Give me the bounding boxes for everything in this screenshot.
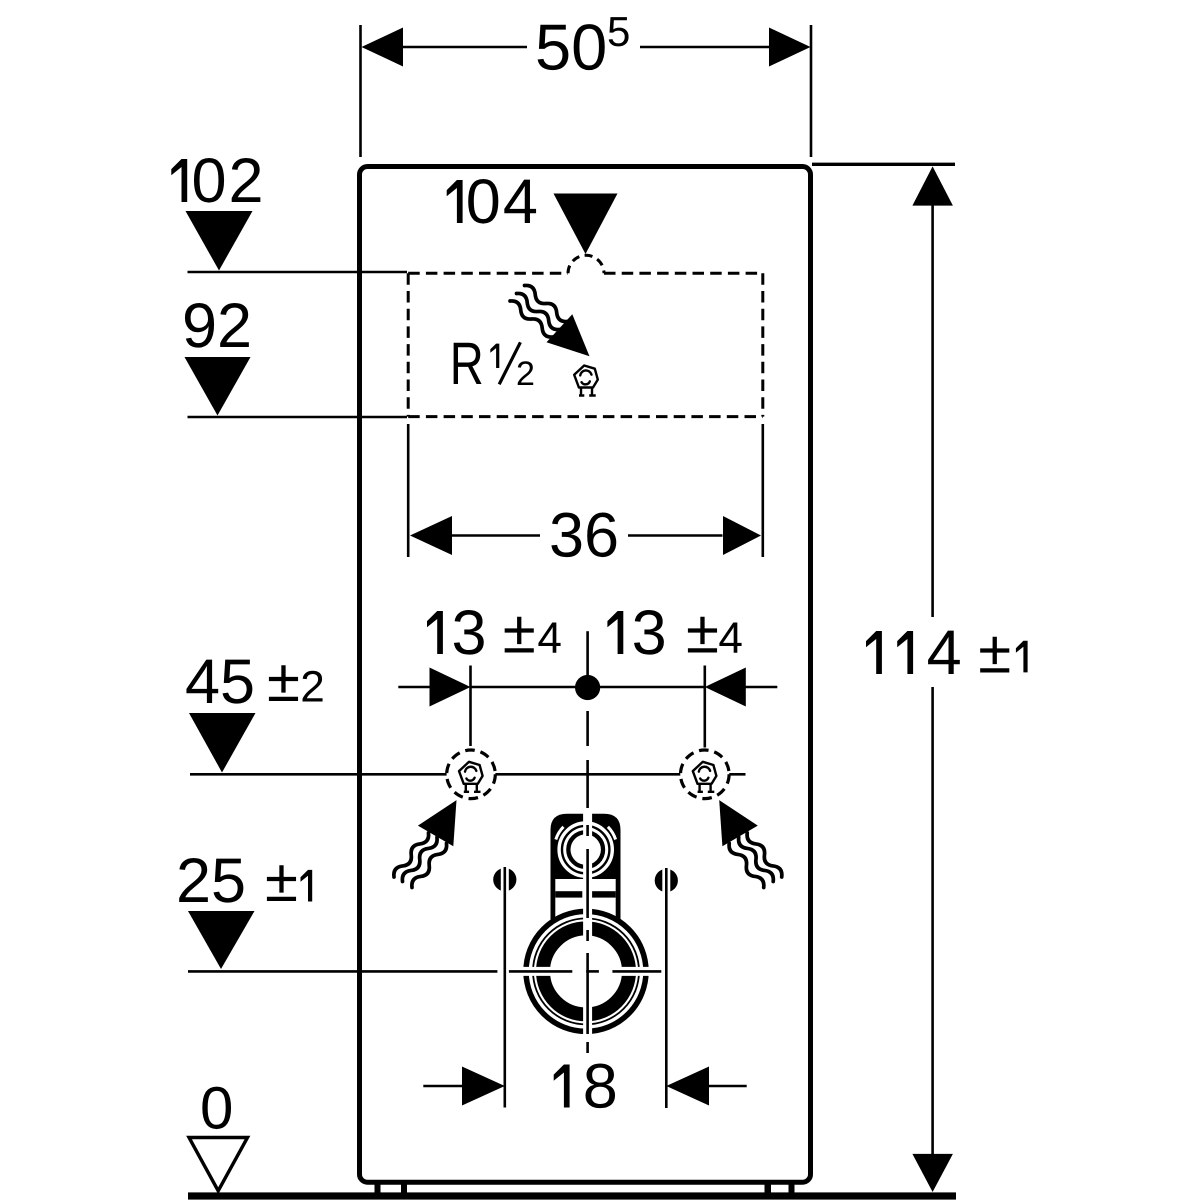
centerline tick above dot <box>586 631 589 676</box>
datum triangle 45 <box>189 713 256 773</box>
dim 36 arrow left <box>410 516 452 555</box>
dim 36 arrow right <box>723 516 761 555</box>
datum triangle 0 (open) <box>189 1138 248 1191</box>
label 102 <box>171 159 187 202</box>
dim 18 arrow right <box>666 1067 709 1106</box>
datum triangle 92 <box>185 357 251 416</box>
ground line <box>188 1192 956 1199</box>
svg-text:3: 3 <box>632 598 667 668</box>
tap icon anchor left <box>459 762 483 792</box>
svg-text:8: 8 <box>583 1052 618 1122</box>
svg-text:25: 25 <box>176 846 246 916</box>
svg-text:36: 36 <box>549 500 619 570</box>
supply fitting corner highlights <box>556 827 564 840</box>
tap icon top <box>574 366 598 396</box>
datum triangle 25 <box>188 911 255 969</box>
module right foot <box>765 1184 772 1194</box>
dim 18 arrow left <box>462 1067 505 1106</box>
dim 114 arrow top <box>912 166 953 205</box>
label 13 left <box>427 611 443 654</box>
drain outer circle <box>526 911 646 1031</box>
svg-text:R: R <box>450 330 484 397</box>
dim 114 dimension line <box>931 206 934 618</box>
dim 505 extension line left <box>359 25 362 157</box>
svg-text:02: 02 <box>192 146 266 216</box>
dim 18 extension line right <box>665 868 668 1108</box>
reference line 45 <box>190 773 447 776</box>
dim 13 arrow left <box>430 668 471 707</box>
center dot node <box>575 675 600 700</box>
supply fitting white rings <box>559 823 612 876</box>
dim 36 extension lines <box>407 424 410 557</box>
label 104 <box>447 180 463 223</box>
datum triangle 104 <box>554 194 618 255</box>
dim 13 tick left <box>469 666 472 747</box>
anchor circle right (dashed) <box>681 750 730 799</box>
svg-text:±: ± <box>267 647 300 714</box>
water jet arrow right anchor <box>719 800 784 890</box>
water jet arrow left anchor <box>391 800 456 890</box>
dim 13 tick right <box>703 666 706 748</box>
dim 505 arrow right <box>769 28 811 67</box>
module outline (sanitary module front view) <box>360 167 811 1183</box>
datum triangle 102 <box>186 211 253 271</box>
svg-text:0: 0 <box>200 1075 233 1142</box>
svg-text:92: 92 <box>182 291 252 361</box>
label 18 <box>554 1065 570 1108</box>
dashed semicircle notch <box>568 255 604 273</box>
reference line 92 <box>188 416 408 419</box>
svg-text:±: ± <box>686 599 719 666</box>
dim 13 dimension line <box>398 686 429 689</box>
supply fitting side bars <box>551 879 556 920</box>
centerline white casing horizontal <box>515 967 655 976</box>
dim 36 dimension line <box>452 534 540 537</box>
svg-text:04: 04 <box>466 167 540 237</box>
lens fastener right <box>655 869 678 892</box>
dim 114 arrow bottom <box>912 1154 953 1192</box>
dim 18 extension line left <box>503 867 506 1108</box>
tap icon anchor right <box>693 762 717 792</box>
reference line 102 <box>188 271 408 274</box>
label 114 <box>866 631 882 674</box>
lens fastener left <box>493 868 516 891</box>
dim 18 dimension line <box>423 1085 462 1088</box>
svg-text:±: ± <box>503 599 536 666</box>
anchor circle left (dashed) <box>447 750 496 799</box>
dashed water supply zone box <box>408 272 568 275</box>
drain thin circle <box>533 918 639 1024</box>
svg-text:±: ± <box>265 847 298 914</box>
module left foot <box>375 1184 381 1194</box>
drain thick ring <box>543 928 629 1014</box>
label 13 right <box>607 611 623 654</box>
dim 505 dimension line <box>403 46 527 49</box>
supply fitting black body <box>551 814 621 879</box>
reference line 25 with drain crosshair <box>188 970 497 973</box>
centerline white casing vertical <box>583 812 592 1040</box>
supply fitting crossbar <box>555 891 582 897</box>
dim 13 arrow right <box>705 668 746 707</box>
water jet arrow top (supply) <box>508 283 590 356</box>
vertical centerline dashes <box>586 711 589 1053</box>
svg-text:±: ± <box>978 619 1011 686</box>
svg-text:45: 45 <box>185 647 255 717</box>
svg-text:4: 4 <box>927 618 962 688</box>
dim 505 arrow left <box>362 28 404 67</box>
dim 114 top extension line <box>812 163 955 166</box>
svg-text:3: 3 <box>452 598 487 668</box>
svg-text:50: 50 <box>535 11 607 84</box>
dim 505 extension line right <box>810 25 813 157</box>
